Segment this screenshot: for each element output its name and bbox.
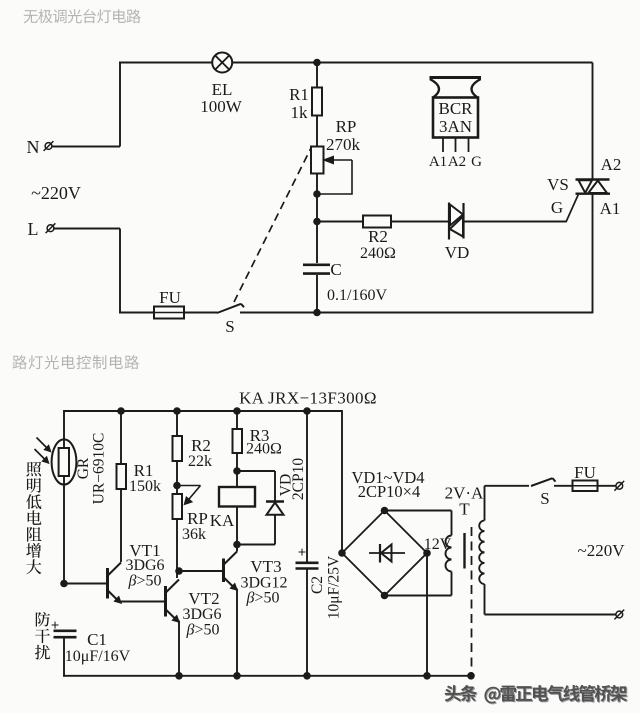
note 照明低电阻增大	[26, 462, 41, 477]
BCR pins A1 A2 G	[442, 138, 444, 153]
svg-text:R1: R1	[289, 85, 309, 104]
svg-text:β>50: β>50	[186, 622, 220, 639]
svg-text:G: G	[471, 154, 482, 170]
photoresistor GR	[63, 410, 65, 441]
node VT1 base junction	[60, 580, 68, 588]
svg-text:22k: 22k	[188, 453, 212, 470]
svg-text:N: N	[27, 137, 40, 157]
svg-text:L: L	[28, 219, 39, 239]
title: 路灯光电控制电路	[13, 355, 27, 369]
svg-text:~220V: ~220V	[578, 541, 626, 560]
title: 无极调光台灯电路	[24, 10, 38, 23]
wire VT2 collector to VT3 base	[179, 570, 223, 572]
label GR rotated	[75, 457, 92, 479]
triac VS	[576, 178, 610, 180]
svg-text:240Ω: 240Ω	[360, 245, 396, 262]
svg-text:A2: A2	[448, 154, 466, 170]
freewheel diode VD 2CP10	[237, 470, 275, 472]
svg-text:3DG6: 3DG6	[125, 557, 164, 574]
wire bus corner down to bridge	[341, 410, 343, 553]
svg-text:A1: A1	[600, 199, 621, 218]
wire bridge right to bottom bus	[426, 553, 428, 676]
wire left vertical L	[119, 229, 121, 314]
diac VD	[448, 203, 450, 240]
svg-text:GR: GR	[75, 457, 92, 479]
svg-text:β>50: β>50	[246, 590, 280, 607]
transistor VT3 3DG12	[222, 559, 225, 583]
svg-text:BCR: BCR	[438, 99, 473, 118]
svg-text:VT3: VT3	[250, 557, 281, 576]
svg-text:A2: A2	[601, 155, 622, 174]
svg-text:C2: C2	[309, 576, 326, 594]
wire bottom bus left	[119, 312, 154, 314]
node VT2 collector junction	[175, 567, 183, 575]
svg-text:G: G	[551, 198, 563, 217]
svg-text:270k: 270k	[326, 135, 361, 154]
wire bottom bus right	[240, 312, 593, 314]
svg-text:3DG6: 3DG6	[182, 606, 221, 623]
wire right vertical bottom	[592, 194, 594, 314]
svg-text:240Ω: 240Ω	[246, 441, 282, 458]
transformer core	[463, 533, 465, 569]
svg-text:2CP10: 2CP10	[290, 458, 307, 500]
fuse FU bottom	[573, 481, 598, 492]
node RP wiper return	[173, 482, 181, 490]
node RP wiper junction	[313, 190, 321, 198]
terminal N	[53, 146, 121, 148]
wire VD to gate	[464, 221, 567, 223]
node R2 branch junction	[313, 218, 321, 226]
svg-text:UR−6910C: UR−6910C	[91, 433, 108, 505]
gate lead G	[566, 195, 578, 223]
svg-text:+: +	[298, 545, 307, 561]
node R3/VD junction	[233, 467, 241, 475]
terminal L	[55, 228, 121, 230]
svg-text:C1: C1	[87, 630, 107, 649]
wire left vertical N	[119, 62, 121, 147]
svg-text:~220V: ~220V	[31, 183, 81, 203]
wire primary top to switch	[485, 485, 530, 487]
relay coil KA	[219, 487, 255, 507]
light arrows	[37, 438, 49, 450]
bridge rectifier VD1~VD4	[342, 511, 427, 596]
wire bottom bus	[63, 675, 472, 677]
wire R2 branch left	[317, 221, 363, 223]
svg-text:R2: R2	[368, 227, 388, 246]
wire FU to switch	[184, 312, 218, 314]
wire primary bottom to terminal	[485, 614, 617, 616]
wire bottom top bus	[63, 410, 342, 412]
wire FU to terminal	[598, 485, 617, 487]
wire R2 to VD	[391, 221, 449, 223]
svg-text:S: S	[540, 489, 549, 508]
svg-text:C: C	[330, 260, 341, 279]
wire top bus left	[119, 62, 212, 64]
wire bus to R1	[316, 63, 318, 88]
fuse FU top circuit	[154, 307, 184, 319]
resistor R3 240 ohm	[236, 411, 238, 429]
svg-text:1k: 1k	[291, 103, 309, 122]
capacitor C 0.1/160V	[303, 263, 330, 266]
svg-text:A1: A1	[429, 154, 447, 170]
svg-text:VS: VS	[547, 175, 569, 194]
resistor R2 240 ohm	[363, 216, 391, 228]
transformer T secondary winding	[451, 511, 453, 536]
svg-text:12V: 12V	[424, 536, 452, 553]
resistor R1 1k	[312, 88, 322, 116]
capacitor C1 10uF/16V	[54, 629, 77, 632]
svg-text:RP: RP	[336, 117, 357, 136]
svg-text:10μF/16V: 10μF/16V	[65, 648, 131, 665]
node relay bottom junction	[233, 541, 241, 549]
svg-text:3AN: 3AN	[439, 117, 472, 136]
svg-text:VD: VD	[445, 243, 470, 262]
svg-text:36k: 36k	[182, 526, 206, 543]
svg-text:FU: FU	[574, 463, 596, 482]
svg-text:100W: 100W	[200, 97, 243, 116]
transistor VT2 3DG6	[164, 586, 167, 617]
wire switch to FU	[554, 485, 573, 487]
switch S bottom	[531, 478, 553, 486]
transformer shield dashed	[471, 527, 473, 676]
capacitor C2 10uF/25V	[306, 411, 308, 563]
package BCR 3AN	[430, 76, 482, 79]
svg-text:KA JRX−13F300Ω: KA JRX−13F300Ω	[239, 389, 377, 408]
label UR-6910C rotated	[91, 433, 108, 505]
node top bus / R1 junction	[313, 59, 321, 67]
svg-text:+: +	[51, 618, 60, 634]
wire top bus right	[232, 62, 592, 64]
svg-text:FU: FU	[159, 288, 181, 307]
svg-text:S: S	[225, 317, 234, 336]
wire bridge top to secondary	[385, 510, 452, 512]
transformer T primary winding	[484, 486, 486, 521]
wire R1 to RP	[316, 116, 318, 147]
wire right vertical top	[592, 63, 594, 180]
RP wiper arrow	[331, 159, 352, 161]
svg-text:10μF/25V: 10μF/25V	[326, 555, 343, 619]
note 防干扰	[36, 612, 50, 627]
transistor VT1 3DG6	[106, 568, 109, 599]
potentiometer RP 36k	[173, 494, 183, 519]
svg-text:0.1/160V: 0.1/160V	[327, 287, 387, 304]
svg-text:β>50: β>50	[128, 573, 162, 590]
wire bridge bottom to secondary	[385, 595, 452, 597]
svg-text:KA: KA	[210, 511, 235, 530]
resistor R2 22k	[176, 411, 178, 436]
svg-text:150k: 150k	[129, 478, 161, 495]
switch S top circuit	[217, 304, 241, 313]
resistor R1 150k	[120, 411, 122, 464]
node C bottom junction	[313, 309, 321, 317]
mechanical link dashed S-RP	[234, 148, 311, 302]
svg-text:2CP10×4: 2CP10×4	[358, 482, 421, 501]
svg-text:T: T	[459, 500, 470, 519]
terminal bottom right	[616, 611, 623, 618]
watermark 头条@雷正电气线管桥架	[445, 685, 628, 704]
wire RP down	[316, 174, 318, 264]
potentiometer RP 270k	[311, 147, 324, 174]
lamp EL	[212, 53, 232, 73]
terminal top right	[616, 482, 623, 489]
